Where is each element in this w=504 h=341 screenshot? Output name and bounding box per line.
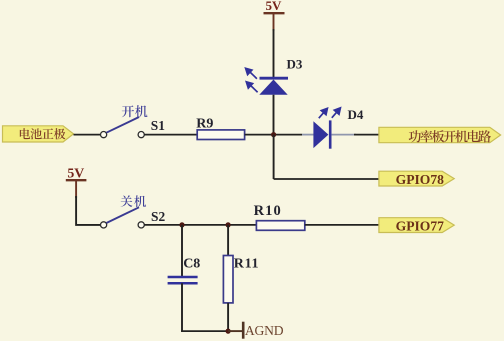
power port 5V (top) — [264, 0, 285, 31]
wire D4 to port — [331, 134, 356, 136]
svg-text:D4: D4 — [348, 107, 364, 122]
resistor R11 — [223, 256, 233, 303]
svg-text:GPIO77: GPIO77 — [396, 219, 445, 234]
svg-text:R10: R10 — [254, 203, 282, 219]
wire R10 to GPIO77 — [305, 224, 379, 226]
junction D node — [226, 329, 231, 334]
svg-text:D3: D3 — [287, 57, 303, 72]
LED D3 — [246, 68, 288, 94]
wire D3 to junction A — [273, 95, 275, 135]
port GPIO77 — [379, 218, 454, 233]
junction A node — [271, 132, 276, 137]
port GPIO78 — [379, 171, 454, 186]
wire 5V to S2 — [76, 196, 100, 225]
svg-text:5V: 5V — [266, 0, 283, 13]
wire R9 to junction A — [245, 134, 274, 136]
svg-text:R9: R9 — [196, 117, 213, 132]
wire 5V to D3 — [273, 29, 275, 77]
resistor R9 — [197, 130, 244, 140]
LED D4 — [313, 108, 340, 149]
svg-text:C8: C8 — [183, 257, 200, 272]
svg-text:5V: 5V — [67, 165, 84, 180]
svg-text:GPIO78: GPIO78 — [396, 172, 445, 187]
svg-text:AGND: AGND — [245, 323, 284, 338]
ground rail wire — [181, 330, 229, 332]
label 开机 (power on) — [122, 105, 148, 117]
junction C node (R11 tap) — [226, 222, 231, 227]
label 关机 (power off) — [121, 195, 147, 207]
resistor R10 — [256, 221, 304, 231]
svg-text:S2: S2 — [151, 209, 165, 224]
power port 5V (bottom) — [66, 165, 87, 198]
port 功率板开机电路 — [379, 127, 501, 142]
capacitor C8 — [168, 277, 198, 283]
switch S2 — [101, 207, 145, 228]
port 电池正极 (battery positive) — [3, 126, 74, 142]
wire S1 to R9 — [144, 134, 197, 136]
wire junction A down and right to GPIO78 — [273, 135, 275, 179]
wire battery to S1 — [74, 134, 101, 136]
junction B node (C8 tap) — [179, 222, 184, 227]
wire junction C to R11 — [227, 225, 229, 256]
svg-text:R11: R11 — [234, 257, 259, 272]
svg-text:S1: S1 — [151, 118, 165, 133]
ground AGND — [228, 322, 284, 339]
wire C8 to ground rail — [181, 283, 183, 332]
wire junction B to C8 — [181, 225, 183, 276]
wire R11 to ground rail — [227, 303, 229, 332]
switch S1 — [101, 117, 145, 138]
wire junction A to D4 — [274, 134, 302, 136]
wire S2 to R10 — [144, 224, 256, 226]
